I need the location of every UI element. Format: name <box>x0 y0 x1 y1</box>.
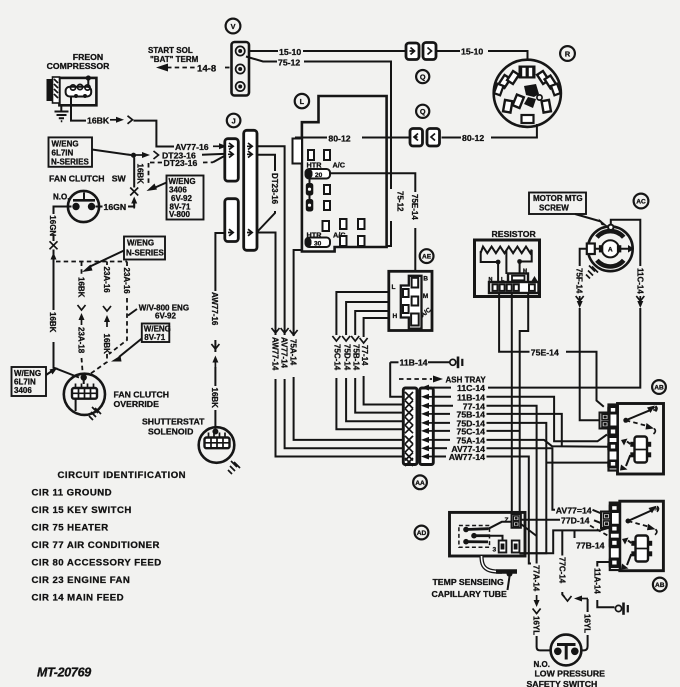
W/ENG N-SERIES box <box>124 237 165 260</box>
relay AB1 body <box>618 404 664 475</box>
W/ENG 6L7IN 3406 box <box>12 367 47 396</box>
wire 75D-14 (AE to ash tray) <box>346 302 389 335</box>
svg-text:CIR 15 KEY SWITCH: CIR 15 KEY SWITCH <box>32 505 132 516</box>
motor field arcs <box>597 231 624 237</box>
svg-text:RESISTOR: RESISTOR <box>492 229 537 239</box>
svg-text:11A-14: 11A-14 <box>592 568 601 594</box>
wire AV77-14 (J to ash tray) <box>257 146 285 335</box>
connector pair on 80-12 wire <box>410 129 423 147</box>
fuse slot row 1 <box>308 150 314 160</box>
W/ENG 3406 box <box>167 176 204 220</box>
svg-text:V: V <box>231 22 236 31</box>
circle AD <box>415 526 429 540</box>
svg-text:75-12: 75-12 <box>396 191 405 212</box>
resistor output H wire (to thermostat Z) <box>520 293 529 515</box>
ignition switch terminals <box>494 66 561 124</box>
svg-text:SAFETY SWITCH: SAFETY SWITCH <box>527 679 598 687</box>
thermostat contacts <box>463 527 469 533</box>
wire AW77-16 (J to shutterstat solenoid) <box>215 233 224 291</box>
wire 14-8 (dashed to start solenoid) <box>156 64 168 72</box>
svg-text:SOLENOID: SOLENOID <box>148 427 193 437</box>
ground capacitor <box>615 605 621 611</box>
svg-text:CAPILLARY TUBE: CAPILLARY TUBE <box>432 589 507 599</box>
fan clutch switch body <box>68 191 99 222</box>
junction dot <box>496 260 501 265</box>
pins (arrows) in right strip <box>421 385 435 460</box>
svg-text:N-SERIES: N-SERIES <box>126 249 164 258</box>
svg-text:"BAT" TERM: "BAT" TERM <box>150 55 199 64</box>
svg-text:AB: AB <box>654 385 664 392</box>
wire DT23-16 (dashed) <box>148 163 150 184</box>
svg-text:A: A <box>608 246 613 253</box>
svg-text:75C-14: 75C-14 <box>333 344 342 371</box>
dashed wire 23A-16/16BK (to override) <box>106 262 108 266</box>
fuse panel left terminal tab (80-12 end) <box>293 139 303 164</box>
fuse 30 (HTR) <box>306 238 331 248</box>
svg-text:75D-14: 75D-14 <box>342 344 351 371</box>
leader from 6L7IN 3406 box <box>46 371 52 375</box>
junction dot on compressor top <box>86 75 91 80</box>
svg-text:20: 20 <box>315 172 323 179</box>
ash tray connector strip left <box>403 388 417 465</box>
suppressor capacitor <box>450 359 456 365</box>
circle AB (lower) <box>653 578 667 592</box>
connector V terminals <box>236 46 245 55</box>
svg-text:FAN CLUTCH SW: FAN CLUTCH SW <box>49 173 127 183</box>
svg-text:16BK: 16BK <box>77 277 86 298</box>
svg-text:75F-14: 75F-14 <box>575 268 584 294</box>
svg-text:AC: AC <box>636 199 646 206</box>
svg-text:16BK: 16BK <box>102 334 111 355</box>
wire 75D-14 to relay AB1 and thermostat 3 <box>487 423 547 553</box>
svg-text:DT23-16: DT23-16 <box>270 173 279 205</box>
dashed ASH TRAY pointer <box>399 378 432 380</box>
svg-text:SHUTTERSTAT: SHUTTERSTAT <box>142 416 205 426</box>
circle Q <box>416 70 429 83</box>
svg-text:77B-14: 77B-14 <box>576 541 605 551</box>
wire Z to 77A junction (diag) <box>521 524 537 536</box>
svg-text:Q: Q <box>420 107 426 116</box>
connector pair on 15-10 wire <box>406 43 419 60</box>
circle AA <box>413 475 427 489</box>
blower motor body <box>588 226 633 271</box>
dashed wire 23A-16 (to override) <box>126 262 128 267</box>
circle AB (upper) <box>652 380 666 394</box>
svg-text:8V-71: 8V-71 <box>144 333 165 342</box>
junction dot <box>517 259 522 264</box>
wire 11C-14 (motor to ash tray) <box>611 220 641 266</box>
wire AV77-14 to relay AB2 <box>487 448 556 510</box>
svg-text:15-10: 15-10 <box>461 47 483 57</box>
svg-text:75-12: 75-12 <box>278 58 300 68</box>
wire 11A-14 (relay AB2 to ground capacitor) <box>597 562 610 567</box>
svg-text:LOW PRESSURE: LOW PRESSURE <box>535 668 606 678</box>
circle AC <box>634 194 649 209</box>
wire DT23-16 (solid) <box>136 152 150 158</box>
svg-text:CIR 11 GROUND: CIR 11 GROUND <box>32 487 112 498</box>
svg-text:CIR 14 MAIN FEED: CIR 14 MAIN FEED <box>32 592 125 603</box>
svg-text:N-SERIES: N-SERIES <box>51 158 89 167</box>
wire label 75D-14 <box>433 422 450 424</box>
svg-text:B: B <box>423 276 428 283</box>
svg-text:77A-14: 77A-14 <box>532 565 541 592</box>
wire 75A-14 from fuse 30 <box>294 250 303 336</box>
svg-text:V-800: V-800 <box>169 210 190 219</box>
W/ENG 8V-71 box <box>142 324 170 343</box>
splice X on 16BK <box>130 188 138 196</box>
motor ground <box>586 266 598 279</box>
svg-text:CIR 75 HEATER: CIR 75 HEATER <box>32 522 109 533</box>
svg-text:SCREW: SCREW <box>539 204 569 213</box>
svg-text:W/ENG: W/ENG <box>52 140 79 149</box>
MOTOR MTG SCREW callout box <box>529 193 586 215</box>
relay AB1 contacts <box>623 418 628 423</box>
svg-text:START SOL: START SOL <box>148 46 193 55</box>
splice X <box>50 241 58 249</box>
svg-text:16GN: 16GN <box>104 202 127 212</box>
svg-text:OVERRIDE: OVERRIDE <box>114 399 160 409</box>
circle Q <box>416 105 429 118</box>
svg-text:AB: AB <box>655 582 665 589</box>
override bottom wire <box>75 399 77 411</box>
wire AW77-14 (to thermostat) <box>487 457 532 564</box>
svg-text:77D-14: 77D-14 <box>561 516 590 526</box>
svg-text:H: H <box>393 313 398 320</box>
wire DT23-16 (J return loop) <box>257 155 275 171</box>
compressor mounting connector (hatched) <box>47 79 53 101</box>
circle L <box>295 94 309 108</box>
svg-text:3: 3 <box>493 547 497 554</box>
svg-text:CIRCUIT IDENTIFICATION: CIRCUIT IDENTIFICATION <box>58 470 187 481</box>
svg-text:3406: 3406 <box>14 386 32 395</box>
wire 75B-14 to relay AB1 <box>487 414 562 446</box>
svg-text:16BK: 16BK <box>87 116 110 126</box>
relay AB2 body <box>620 501 664 571</box>
svg-text:23A-16: 23A-16 <box>122 268 131 295</box>
svg-text:N: N <box>489 277 493 283</box>
wire label 75B-14 <box>433 413 450 415</box>
svg-text:16BK: 16BK <box>210 388 219 409</box>
circle AE <box>420 249 434 263</box>
AE inner connector <box>401 276 422 329</box>
wire label AW77-14 <box>433 456 446 458</box>
connector J strip C (tall) <box>244 130 257 250</box>
override coil component <box>76 384 94 389</box>
wire 16BK (junction to fan clutch sw) <box>133 158 135 188</box>
svg-text:AD: AD <box>417 530 427 537</box>
motor brushes <box>587 244 595 255</box>
fuse 20 (HTR) <box>306 169 331 179</box>
resistor output M wire (to thermostat Z) <box>511 293 513 515</box>
relay AB2 contacts <box>626 519 631 524</box>
wire 11B-14 branch with suppressor <box>390 361 398 363</box>
circle J <box>227 114 241 128</box>
svg-text:11C-14: 11C-14 <box>635 268 644 294</box>
svg-text:75E-14: 75E-14 <box>531 348 559 358</box>
low pressure safety switch body <box>551 635 582 666</box>
wire 16GN/16BK (switch left, down) <box>54 207 72 215</box>
wire 15-10 (V to ignition switch) <box>249 50 278 52</box>
connector V body <box>232 42 250 96</box>
svg-text:DT23-16: DT23-16 <box>164 158 198 168</box>
resistor M terminal <box>508 274 528 283</box>
svg-text:FAN CLUTCH: FAN CLUTCH <box>114 390 170 400</box>
wire label 77-14 <box>433 405 453 407</box>
wire 75B-14 (AE to ash tray) <box>355 311 389 335</box>
svg-text:16GN: 16GN <box>48 215 57 236</box>
wire top contact to Z <box>489 522 512 529</box>
svg-text:80-12: 80-12 <box>328 133 350 143</box>
dashed wire 16BK/23A-18 (to override) <box>81 262 83 277</box>
wire 75C-14 (AE to ash tray) <box>336 292 388 335</box>
compressor clutch coil <box>66 87 92 97</box>
capillary tube <box>482 556 503 572</box>
wire 77C-14 (branch to low pressure switch) <box>561 530 563 555</box>
wire 75-12 (V to fuse panel) <box>246 57 277 62</box>
svg-text:CIR 80 ACCESSORY FEED: CIR 80 ACCESSORY FEED <box>32 557 162 568</box>
svg-text:CIR 77 AIR CONDITIONER: CIR 77 AIR CONDITIONER <box>32 540 160 551</box>
relay AB1 terminal strip <box>609 405 618 471</box>
wire label 11B-14 <box>433 396 451 398</box>
svg-text:16BK: 16BK <box>136 164 145 185</box>
wire 77D-14 (Z to relay AB2) <box>521 519 560 521</box>
svg-text:16BK: 16BK <box>48 312 57 333</box>
svg-text:80-12: 80-12 <box>462 133 484 143</box>
svg-text:Q: Q <box>420 72 426 81</box>
junction node (16BK / DT23-16) <box>131 153 136 158</box>
svg-text:77-14: 77-14 <box>360 345 369 366</box>
svg-text:L: L <box>392 284 396 291</box>
thermostat switch (dashed) <box>459 526 490 548</box>
svg-text:N.O.: N.O. <box>53 192 69 201</box>
override top terminal <box>81 374 87 380</box>
circle R <box>560 46 575 61</box>
W/ENG 6L7IN N-SERIES box <box>49 137 93 166</box>
svg-text:AE: AE <box>422 254 432 261</box>
svg-text:77C-14: 77C-14 <box>557 557 566 584</box>
wire 77-14 (AE to ash tray) <box>364 318 389 337</box>
wire mid contact to 3 <box>490 536 503 541</box>
relay AB1 coil <box>635 437 648 463</box>
svg-text:23A-16: 23A-16 <box>102 267 111 294</box>
dashed engine-option harness bracket <box>54 252 128 262</box>
svg-text:6L7IN: 6L7IN <box>52 149 74 158</box>
svg-text:A/C: A/C <box>333 161 346 170</box>
freon compressor body <box>59 78 96 105</box>
fuse holder dark 1 <box>306 183 314 196</box>
svg-text:6V-92: 6V-92 <box>155 312 176 321</box>
wire 77B-14 (3 to relay AB2) <box>519 528 609 554</box>
svg-text:AV77-14: AV77-14 <box>280 337 289 369</box>
svg-text:75B-14: 75B-14 <box>351 344 360 371</box>
shutterstat solenoid body <box>199 427 235 463</box>
resistor element zigzag <box>481 247 532 254</box>
leader to motor <box>575 214 601 222</box>
leader from N-SERIES box to junction <box>92 150 131 156</box>
connector J strip A (upper) <box>225 139 239 181</box>
svg-text:R: R <box>565 49 571 58</box>
svg-text:23A-18: 23A-18 <box>77 327 86 354</box>
leader from W/ENG 3406 box <box>154 183 167 189</box>
svg-text:g: g <box>653 406 656 412</box>
svg-text:AW77-16: AW77-16 <box>210 292 219 326</box>
svg-text:AW77-14: AW77-14 <box>271 337 280 371</box>
solenoid ground <box>228 461 240 474</box>
relay AB2 coil <box>636 536 649 562</box>
pins (x marks) in left strip <box>405 392 413 466</box>
svg-text:M: M <box>423 293 429 300</box>
chevrons on down wires <box>272 328 280 333</box>
wire 75F-14 (motor to relay) <box>580 249 587 266</box>
thermostat box <box>450 512 526 556</box>
relay AB2 side connector <box>601 512 611 529</box>
wire label AV77-14 <box>433 447 447 449</box>
svg-text:AA: AA <box>415 480 425 487</box>
fan clutch override body <box>64 374 105 415</box>
svg-text:75E-14: 75E-14 <box>410 194 419 220</box>
wire label 11C-14 <box>433 387 451 389</box>
motor top terminal <box>608 225 613 230</box>
ash tray connector strip right <box>420 388 434 465</box>
ignition switch body <box>494 60 561 127</box>
svg-text:J: J <box>232 116 236 125</box>
svg-text:N: N <box>655 507 659 513</box>
connector J strip B (lower) <box>225 199 239 242</box>
svg-text:AV77=14: AV77=14 <box>556 505 592 515</box>
svg-text:M: M <box>523 269 527 275</box>
connector J strip A pins <box>228 143 233 150</box>
fuse panel outline <box>302 96 387 252</box>
compressor ground <box>60 105 62 111</box>
svg-text:75A-14: 75A-14 <box>289 339 298 366</box>
fuse holder dark 2 <box>306 199 314 212</box>
svg-text:MOTOR MTG: MOTOR MTG <box>533 194 583 203</box>
svg-text:30: 30 <box>314 240 322 247</box>
wire 77-14 / 77A-14 (to low pressure switch) <box>487 406 537 564</box>
wire 16GN (switch to 16BK splice) <box>96 206 103 208</box>
resistor mid tap <box>505 251 507 275</box>
wire 75A-14 to relay AB1 <box>487 440 609 447</box>
svg-text:TEMP SENSEING: TEMP SENSEING <box>433 577 505 587</box>
connector AE body <box>389 271 432 330</box>
chevrons on AE wires <box>332 336 340 341</box>
dashed leader into relay AB2 <box>590 526 609 537</box>
wire fuse20 to 75E-14 <box>330 173 415 192</box>
fuse slot row 2 <box>323 221 330 231</box>
wire label 75A-14 <box>433 439 450 441</box>
svg-text:15-10: 15-10 <box>279 47 301 57</box>
relay AB1 side connector <box>600 413 610 429</box>
svg-text:COMPRESSOR: COMPRESSOR <box>47 61 110 71</box>
leader from N-SERIES box <box>89 251 124 268</box>
svg-text:L: L <box>300 97 305 106</box>
svg-text:W/ENG: W/ENG <box>127 239 154 248</box>
wire 80-12 (ignition to fuse panel) <box>491 124 537 138</box>
svg-text:MT-20769: MT-20769 <box>37 666 91 680</box>
resistor output N wire to 75E-14 <box>499 293 529 352</box>
svg-text:16YL: 16YL <box>532 616 541 635</box>
svg-text:CIR 23 ENGINE FAN: CIR 23 ENGINE FAN <box>32 575 131 586</box>
wire 75C-14 (joins H wire) <box>487 430 520 432</box>
wire 11B-14 to relay AB1 <box>487 397 608 442</box>
wire to AV77-16 <box>134 121 175 147</box>
override ground <box>89 407 101 420</box>
relay AB2 terminal strip <box>610 503 620 570</box>
arrowhead on dashed DT23-16 end <box>147 184 158 192</box>
wire 16BK from compressor <box>71 97 86 121</box>
resistor bottom connector <box>489 282 539 293</box>
wire label 75C-14 <box>433 430 450 432</box>
svg-text:AW77-14: AW77-14 <box>449 452 485 462</box>
svg-text:11B-14: 11B-14 <box>400 358 428 368</box>
resistor body <box>475 240 540 297</box>
svg-text:14-8: 14-8 <box>197 64 217 75</box>
circle V <box>226 19 241 34</box>
wire AW77-14 (J to ash tray) <box>257 233 276 336</box>
svg-text:16YL: 16YL <box>583 614 592 633</box>
